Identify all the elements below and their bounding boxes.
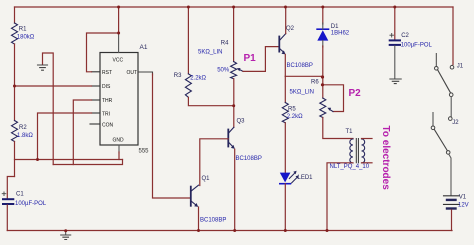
potentiometer R6 — [320, 98, 326, 118]
node DIS-left-rail junction — [13, 85, 16, 88]
wire R6 top vertical — [322, 76, 324, 98]
svg-text:THR: THR — [102, 98, 113, 104]
svg-text:1BH62: 1BH62 — [331, 30, 350, 36]
pin stub THR — [92, 99, 101, 101]
wire D1 bottom — [322, 41, 324, 47]
node TRI ground-bus junction — [36, 158, 39, 161]
resistor R5 — [282, 103, 288, 123]
potentiometer R4 — [231, 62, 237, 79]
svg-text:LED1: LED1 — [298, 175, 314, 181]
wire THR down — [73, 100, 91, 165]
svg-text:D1: D1 — [331, 24, 339, 30]
wire R4 top — [233, 7, 235, 62]
wire OUT to Q1 base — [153, 74, 190, 198]
wire left rail upper — [14, 7, 16, 23]
svg-text:P1: P1 — [244, 53, 257, 64]
node VCC rail junction — [117, 6, 120, 9]
svg-text:12V: 12V — [458, 203, 469, 209]
wire R6 bottom to T1 — [323, 118, 353, 139]
node R3 rail junction — [187, 6, 190, 9]
ground bottom — [65, 231, 67, 235]
svg-text:100µF-POL: 100µF-POL — [401, 42, 433, 48]
wire C1 to bottom rail — [6, 205, 8, 231]
node LED1 rail junction — [284, 229, 287, 232]
node RST-VCC junction — [117, 32, 120, 35]
svg-text:NLT_PQ_4_10: NLT_PQ_4_10 — [330, 164, 370, 170]
node Q1 emitter rail junction — [197, 229, 200, 232]
svg-text:180kΩ: 180kΩ — [17, 34, 35, 40]
transformer T1 — [350, 139, 365, 163]
svg-text:R1: R1 — [19, 27, 27, 33]
ground left symbol — [38, 65, 48, 70]
wire J2 to battery — [449, 154, 451, 195]
wire Q1 emitter down — [198, 207, 200, 231]
wire C2 to ground — [394, 46, 396, 79]
svg-text:DIS: DIS — [102, 84, 111, 90]
wire VCC vertical — [118, 7, 120, 33]
capacitor C2 — [390, 39, 400, 41]
wire P1 wiper to Q2 base — [243, 47, 279, 72]
battery V1 — [444, 195, 460, 197]
resistor R3 — [185, 74, 191, 98]
transistor Q1 — [191, 185, 199, 207]
svg-text:CON: CON — [102, 122, 114, 128]
wire left rail R2 down to node — [14, 142, 16, 177]
wire Q2 emitter down — [284, 54, 286, 76]
wire Q3 base to Q1 collector — [200, 139, 229, 186]
svg-text:5KΩ_LIN: 5KΩ_LIN — [198, 50, 223, 56]
svg-text:RST: RST — [102, 70, 112, 76]
wire LED1 to rail — [284, 184, 286, 231]
svg-text:R4: R4 — [221, 40, 229, 46]
svg-text:2.2kΩ: 2.2kΩ — [287, 114, 303, 120]
svg-text:Q2: Q2 — [286, 26, 295, 32]
diode D1 — [317, 30, 328, 40]
svg-text:R6: R6 — [311, 80, 319, 86]
wire right drop to J1 — [452, 7, 454, 65]
wire T1 secondary bottom stub — [362, 162, 373, 164]
wire R5 to LED1 — [284, 123, 286, 173]
svg-text:2.2kΩ: 2.2kΩ — [190, 76, 206, 82]
wire D1 top — [322, 7, 324, 24]
svg-text:P2: P2 — [349, 88, 362, 99]
wire TRI down — [38, 113, 92, 160]
wiper arrow P2 — [329, 109, 333, 111]
svg-text:C1: C1 — [16, 192, 24, 198]
svg-text:C2: C2 — [401, 33, 409, 39]
wire R3 bottom to pot column — [188, 97, 233, 105]
wire battery to bottom rail — [451, 210, 453, 231]
node Q3 emitter rail junction — [233, 229, 236, 232]
svg-text:VCC: VCC — [113, 58, 124, 64]
svg-text:A1: A1 — [140, 44, 148, 51]
switch J1 — [435, 54, 454, 97]
wire R3 top — [187, 7, 189, 74]
svg-text:J1: J1 — [457, 64, 464, 70]
switch J2 — [431, 113, 452, 155]
svg-text:J2: J2 — [452, 120, 459, 126]
transistor Q3 — [228, 127, 235, 149]
ground C2 — [390, 79, 401, 84]
pin stub RST — [92, 71, 101, 73]
svg-text:OUT: OUT — [127, 70, 138, 76]
node T1 rail junction — [326, 229, 329, 232]
wire R4 bottom to Q3 collector — [233, 79, 235, 128]
svg-text:BC108BP: BC108BP — [287, 63, 313, 69]
svg-text:5KΩ_LIN: 5KΩ_LIN — [290, 90, 315, 96]
svg-text:R5: R5 — [288, 107, 296, 113]
wire Q3 emitter down — [234, 149, 236, 230]
resistor R1 — [12, 23, 18, 44]
capacitor C1 — [3, 198, 13, 200]
node D1 rail junction — [321, 6, 324, 9]
svg-text:Q1: Q1 — [202, 176, 211, 182]
svg-text:V1: V1 — [459, 194, 467, 200]
wire DIS to left rail — [15, 85, 92, 87]
wiper arrow P1 — [239, 69, 243, 71]
wire T1 primary bottom to rail — [327, 163, 353, 231]
ground left elbow wire — [43, 53, 54, 165]
wire Q2 collector to rail — [285, 7, 287, 34]
svg-text:BC108BP: BC108BP — [236, 156, 262, 162]
wire RST to VCC node — [87, 33, 119, 72]
node R6 wiper junction — [321, 83, 324, 86]
node R3-R4 junction — [232, 104, 235, 107]
wire left rail R1 to R2 — [14, 44, 16, 121]
svg-text:BC108BP: BC108BP — [200, 218, 226, 224]
node C2 rail junction — [393, 6, 396, 9]
wire ground bus upper — [15, 159, 123, 161]
wire C2 top — [394, 7, 396, 40]
svg-text:TRI: TRI — [102, 111, 110, 117]
wire P2 wiper loop — [323, 85, 344, 112]
node ground rail junction — [64, 229, 67, 232]
wire T1 secondary top stub — [362, 138, 373, 140]
wire node to D1 and R6 — [285, 75, 323, 77]
LED LED1 — [280, 173, 291, 183]
svg-text:R2: R2 — [19, 125, 27, 131]
svg-text:100µF-POL: 100µF-POL — [15, 201, 47, 207]
node R4 rail junction — [232, 6, 235, 9]
node Q2 collector rail junction — [284, 6, 287, 9]
svg-text:GND: GND — [113, 138, 125, 144]
wire GND stem of 555 — [118, 145, 120, 153]
transistor Q2 — [279, 34, 285, 55]
node D1-R6 junction — [321, 75, 324, 78]
op-amp-box 555 timer A1 — [100, 53, 138, 146]
pin stub CON — [90, 123, 100, 125]
pin stub OUT — [138, 72, 153, 75]
svg-text:To electrodes: To electrodes — [380, 126, 391, 191]
wire ground bus lower — [53, 160, 122, 165]
wire R5 top — [284, 76, 286, 102]
svg-text:50%: 50% — [217, 67, 230, 73]
wire J1 to J2 — [450, 97, 452, 117]
pin stub DIS — [92, 85, 101, 87]
wire jog to C1 — [7, 177, 14, 199]
pin stub TRI — [92, 112, 101, 114]
svg-text:Q3: Q3 — [237, 119, 246, 125]
svg-text:R3: R3 — [174, 73, 182, 79]
wire bottom rail — [7, 230, 452, 232]
svg-text:T1: T1 — [346, 129, 354, 135]
svg-text:1.8kΩ: 1.8kΩ — [17, 133, 33, 139]
wire top rail — [15, 6, 454, 8]
svg-text:555: 555 — [139, 149, 150, 155]
resistor R2 — [12, 121, 18, 142]
